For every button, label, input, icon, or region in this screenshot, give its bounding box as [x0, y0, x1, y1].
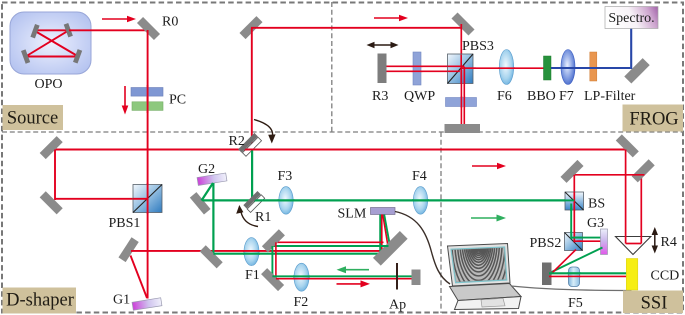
beam OPO to R0 [69, 29, 148, 31]
beam overlay over lens F4 [412, 199, 429, 201]
BBO crystal [544, 56, 552, 80]
beam overlay through PBS3 [448, 55, 477, 85]
retro mirror bar below PBS3 [445, 124, 481, 133]
svg-text:LP-Filter: LP-Filter [584, 89, 636, 104]
svg-text:F6: F6 [497, 89, 512, 104]
rotating mirror R1 gray plate [243, 191, 261, 209]
mirror R3 [378, 54, 387, 84]
dashed divider Source/FROG vertical [331, 2, 333, 132]
PBS1 cube [133, 185, 162, 213]
Source section label [3, 105, 64, 130]
mirror C [632, 159, 655, 182]
beam mirror A down to prism [625, 150, 627, 244]
beam overlay through BS [564, 192, 574, 211]
laptop screen fringes [436, 155, 522, 315]
svg-text:R0: R0 [162, 15, 178, 30]
beam down left side [54, 150, 56, 201]
aperture Ap [396, 263, 398, 290]
svg-text:PBS3: PBS3 [462, 39, 494, 54]
mirror for blue beam [624, 58, 649, 83]
svg-text:D-shaper: D-shaper [6, 291, 74, 311]
lens F1 [244, 238, 259, 266]
beam top horizontal to FROG [251, 27, 463, 29]
cable SLM to laptop [395, 212, 450, 285]
svg-text:Spectro.: Spectro. [608, 11, 654, 26]
beam PBS3 to BBO [461, 67, 544, 69]
svg-text:R4: R4 [661, 235, 677, 250]
arrow right top-middle [374, 15, 408, 22]
arrow right above source beam [102, 16, 136, 23]
beam overlay over lens F6 [498, 67, 515, 69]
beam prism U bottom [626, 243, 642, 245]
dashed divider horizontal y=132 [2, 131, 683, 133]
svg-text:BS: BS [588, 197, 605, 212]
retro prism R4 [616, 237, 651, 255]
R4 double arrow [652, 227, 658, 254]
beam mirror C to mirror B [570, 174, 645, 176]
svg-text:Source: Source [7, 109, 58, 129]
svg-text:G3: G3 [587, 216, 604, 231]
D-shaper section label [3, 288, 77, 314]
svg-text:G2: G2 [198, 162, 215, 177]
OPO cavity box [10, 12, 91, 74]
dashed divider D-shaper/SSI vertical [440, 132, 442, 313]
svg-text:OPO: OPO [34, 77, 62, 92]
PC waveplate blue bar [131, 88, 163, 97]
blue beam BBO to mirror [551, 67, 630, 69]
BS cube [565, 192, 584, 210]
PBS2 cube [565, 233, 583, 251]
beam prism up to mirror C [640, 175, 642, 244]
green arrow right SSI [471, 215, 506, 222]
svg-text:R3: R3 [372, 89, 388, 104]
twin beams PBS3 down [460, 70, 462, 124]
green beam G2 diagonal [202, 183, 214, 201]
mirror above R2 [239, 16, 262, 39]
svg-text:PC: PC [169, 93, 186, 108]
beam down into PBS3 [460, 24, 462, 84]
PC waveplate green bar [132, 102, 163, 111]
svg-text:F3: F3 [278, 169, 293, 184]
waveplate below PBS3 [446, 98, 477, 107]
red arrow right SSI [472, 163, 506, 170]
beam overlay over lens F3 [278, 199, 295, 201]
beams to aperture [272, 275, 412, 277]
laptop body [450, 284, 522, 310]
OPO mirror bottom-left [21, 49, 30, 63]
green beam R2 to R1 [251, 151, 253, 202]
PBS3 cube [448, 54, 474, 84]
svg-text:R2: R2 [229, 134, 245, 149]
beam into PBS1 [55, 198, 147, 200]
svg-text:F4: F4 [412, 169, 427, 184]
QWP waveplate [413, 52, 421, 85]
svg-text:SLM: SLM [338, 207, 367, 222]
beam overlay over lens F5 [568, 273, 581, 276]
mirror to SLM line [200, 245, 223, 268]
beam overlay over QWP [412, 66, 423, 71]
OPO mirror top-left [30, 24, 39, 38]
curved arrow at R1 [236, 205, 258, 227]
svg-text:CCD: CCD [651, 269, 680, 284]
svg-text:Ap: Ap [389, 298, 406, 313]
red arrow right [337, 280, 371, 287]
G2 fold mirror [190, 192, 211, 214]
blue beam up to spectrometer [630, 29, 632, 70]
lens F6 [499, 50, 513, 85]
mirror top-left of D-shaper [40, 136, 63, 159]
beam overlay through PBS1 [133, 183, 148, 214]
laptop screen [448, 244, 511, 287]
LP-Filter [590, 52, 597, 81]
lens F3 [279, 187, 293, 215]
cable laptop to CCD [511, 286, 632, 291]
green beam BS down to PBS2 [570, 208, 572, 235]
beam overlay over waveplate below PBS3 [461, 96, 464, 108]
lens F4 [413, 187, 427, 215]
svg-text:SSI: SSI [641, 294, 668, 314]
rotating mirror R1 white plate [247, 195, 265, 213]
mirror top-right above PBS3 [451, 12, 474, 35]
mirror R0 [137, 17, 160, 40]
beams M5 to CCD [549, 272, 628, 274]
double arrow above R3 [367, 42, 399, 48]
beams PBS2 to G3 [575, 237, 602, 239]
curved arrow at R2 [254, 120, 276, 144]
beam overlay over lens F2 [293, 276, 310, 278]
mirror A top SSI [616, 134, 639, 157]
mirror left-lower of D-shaper [40, 191, 63, 214]
green beam G2 down [212, 183, 214, 257]
green main beam to BS [203, 199, 575, 201]
OPO intracavity beams [27, 30, 78, 56]
beam overlay through PBS2 [571, 232, 583, 243]
beam overlay over PC plates [147, 85, 149, 113]
SSI section label [623, 291, 683, 314]
mirror B [560, 160, 583, 183]
main red beam y150 across [52, 149, 627, 151]
fold vertical beams [275, 242, 277, 278]
grating G2 [197, 173, 227, 185]
lens F5 [569, 267, 580, 287]
twin beams R3 to PBS3 [387, 65, 465, 67]
svg-text:FROG: FROG [629, 110, 678, 130]
svg-text:F2: F2 [294, 295, 309, 310]
beam G1-mirror to F1 line [131, 250, 381, 252]
arrow down beside PC [122, 86, 129, 115]
diagonal beams to mirror M5 [550, 248, 603, 274]
beam block after aperture [412, 270, 421, 286]
beam G1 diagonal [131, 256, 148, 299]
SLM beams down [380, 215, 391, 256]
svg-text:QWP: QWP [404, 89, 435, 104]
OPO mirror top-right [64, 23, 73, 37]
OPO mirror bottom-right [73, 49, 82, 63]
mirror M5 [542, 263, 552, 286]
rotating mirror R2 gray plate [238, 133, 258, 153]
svg-text:PBS2: PBS2 [530, 236, 562, 251]
svg-text:PBS1: PBS1 [109, 216, 141, 231]
vertical beam R0 down to G1 [147, 30, 149, 299]
svg-text:R1: R1 [255, 210, 271, 225]
rotating mirror R2 white plate [242, 137, 261, 156]
CCD sensor [626, 259, 638, 291]
svg-text:F7: F7 [559, 89, 574, 104]
svg-text:F1: F1 [245, 268, 260, 283]
beam overlay over lens F7 and LP-Filter [560, 67, 600, 69]
beam overlay over lens F1 [243, 251, 260, 254]
green beam to SLM fold [213, 253, 390, 255]
svg-text:BBO: BBO [527, 89, 556, 104]
grating G1 [132, 298, 162, 310]
beam mirror B down through BS to PBS2 [573, 175, 575, 234]
grating G3 [601, 229, 608, 255]
return beams to fold mirrors [276, 241, 384, 243]
SLM fold mirror [373, 231, 408, 266]
FROG section label [623, 105, 684, 132]
fold mirror upper [262, 229, 285, 252]
green arrow left [337, 266, 370, 273]
lens F2 [294, 263, 309, 291]
svg-text:F5: F5 [568, 296, 583, 311]
svg-text:G1: G1 [113, 293, 130, 308]
Spectro box [605, 7, 658, 29]
lens F7 [561, 50, 575, 85]
SLM bar [371, 208, 396, 215]
fold mirror lower [261, 268, 284, 291]
mirror above G1 [118, 237, 138, 262]
beam R2 up to top mirror [251, 28, 253, 149]
